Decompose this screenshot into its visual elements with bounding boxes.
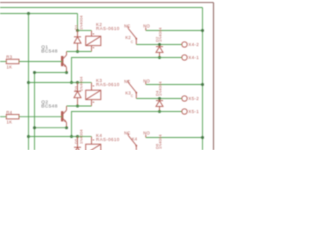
connector pin X5-1: [182, 109, 187, 114]
wire R4 to Q2 base: [19, 116, 62, 118]
svg-text:X5-1: X5-1: [188, 109, 199, 114]
connector pin X5-2: [182, 96, 187, 101]
svg-text:R3: R3: [6, 55, 12, 60]
svg-text:1N4004: 1N4004: [158, 27, 163, 42]
node K2 coil bottom / Q1 collector: [76, 50, 79, 53]
wire left coil supply bus: [28, 14, 30, 151]
svg-text:BC548: BC548: [41, 104, 57, 110]
svg-text:NC: NC: [124, 24, 130, 29]
relay coil K2 RAS-0610: [86, 31, 101, 52]
svg-text:RAS-0610: RAS-0610: [96, 26, 120, 31]
wire emitter ground bus: [34, 73, 36, 151]
wire Q1 collector to K2 coil bottom: [67, 51, 92, 53]
svg-text:X4-1: X4-1: [188, 55, 199, 60]
junction supply bus K4 NO: [201, 136, 204, 139]
resistor R3 1K: [6, 59, 19, 63]
diode D3 1N4004 flyback: [74, 83, 81, 107]
wire input to R4: [0, 116, 6, 118]
junction coil supply rail to left bus: [27, 12, 30, 15]
svg-text:NC: NC: [124, 79, 130, 84]
wire Q1 emitter to ground bus: [35, 72, 67, 74]
wire K2 coil top to node: [78, 30, 92, 32]
wire Q2 collector to K3 coil bottom: [67, 105, 92, 107]
frame right border: [213, 3, 215, 151]
relay contact K3: [128, 80, 146, 98]
node Q2 emitter: [65, 126, 68, 129]
svg-text:NO: NO: [143, 23, 150, 28]
node Q1 emitter: [65, 71, 68, 74]
svg-text:1K: 1K: [7, 64, 13, 69]
svg-text:1N4004: 1N4004: [78, 76, 83, 91]
wire K4 coil top to node: [78, 136, 92, 138]
resistor R4 1K: [6, 115, 19, 119]
pivot of K2 contact arm: [135, 38, 137, 40]
wire K2 common to X4-2: [136, 44, 182, 46]
node K2 coil top (+V): [76, 29, 79, 32]
diode D4 1N4004 across output: [156, 99, 163, 112]
svg-text:K4: K4: [132, 137, 138, 142]
wire right vertical supply bus: [202, 8, 204, 151]
relay contact K2: [128, 26, 146, 44]
wire K3 NO to supply bus: [146, 84, 203, 86]
transistor Q2 BC548 NPN: [62, 106, 66, 128]
svg-text:NO: NO: [143, 130, 150, 135]
svg-text:1N4004: 1N4004: [78, 15, 83, 30]
wire K3 coil top to node: [78, 82, 92, 84]
svg-text:X5-2: X5-2: [188, 96, 199, 101]
junction left bus feed to K4: [27, 135, 30, 138]
node K3 coil top (+V): [76, 81, 79, 84]
wire K2 NO to supply bus: [146, 30, 203, 32]
wire X5-1 net: [72, 112, 182, 137]
pivot of K4 contact arm: [135, 145, 137, 147]
relay coil K4 RAS-0610: [86, 137, 101, 160]
diode D5 1N4004 flyback: [74, 137, 81, 154]
svg-text:R4: R4: [6, 110, 12, 115]
diode D1 1N4004 flyback: [74, 31, 81, 52]
junction ground bus Q2: [33, 126, 36, 129]
svg-text:RAS-0610: RAS-0610: [96, 137, 120, 142]
relay coil K3 RAS-0610: [86, 83, 101, 107]
node K3 coil bottom / Q2 collector: [76, 105, 79, 108]
junction X4-1 net to coil feed: [70, 81, 73, 84]
junction X5-1 net to coil feed: [70, 135, 73, 138]
junction D4 on X5-2 net: [158, 97, 161, 100]
wire coil supply rail: [0, 13, 78, 15]
wire left bus to K4 coil node: [29, 136, 78, 138]
junction left bus feed to K3: [27, 81, 30, 84]
diode D6 1N4004 across output: [0, 0, 1, 1]
transistor Q1 BC548 NPN: [62, 52, 66, 73]
wire X4-1 net: [72, 58, 182, 83]
frame top border: [0, 2, 214, 4]
wire contact supply rail (top): [0, 7, 203, 9]
junction D4 on X5-1 net: [158, 110, 161, 113]
junction supply bus K2 NO: [201, 29, 204, 32]
svg-text:NO: NO: [143, 79, 150, 84]
wire coil supply drop to K2: [77, 14, 79, 31]
diode D2 1N4004 across output: [156, 45, 163, 58]
wire Q2 emitter to ground bus: [35, 127, 67, 129]
wire input to R3: [0, 61, 6, 63]
junction D2 on X4-2 net: [158, 43, 161, 46]
junction supply bus K3 NO: [201, 83, 204, 86]
wire R3 to Q1 base: [19, 61, 62, 63]
junction D2 on X4-1 net: [158, 56, 161, 59]
svg-text:1N4004: 1N4004: [158, 134, 163, 149]
wire K3 common to X5-2: [136, 98, 182, 100]
relay contact K4: [128, 133, 146, 150]
svg-text:RAS-0610: RAS-0610: [96, 82, 120, 87]
node K4 coil top (+V): [76, 135, 79, 138]
svg-text:X4-2: X4-2: [188, 42, 199, 47]
connector pin X4-1: [182, 55, 187, 60]
svg-text:NC: NC: [124, 131, 130, 136]
junction ground bus Q1: [33, 71, 36, 74]
wire left bus to K3 coil node: [29, 82, 78, 84]
svg-text:1K: 1K: [7, 120, 13, 125]
wire K4 NO to supply bus: [146, 137, 203, 139]
connector pin X4-2: [182, 42, 187, 47]
svg-text:BC548: BC548: [41, 48, 57, 54]
svg-text:1N4004: 1N4004: [158, 81, 163, 96]
pivot of K3 contact arm: [135, 92, 137, 94]
